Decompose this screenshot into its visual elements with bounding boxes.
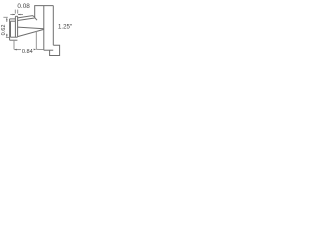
dim 0.62 top arrowhead [6,18,8,21]
background [0,0,76,63]
dim 0.62 bottom arrowhead [6,35,8,38]
dim 0.84 right arrowhead [34,49,37,51]
dim 0.62 line lower stub [6,34,8,37]
svg-text:1.25″: 1.25″ [58,23,73,30]
leg barb [35,18,37,21]
dim 0.08 right arrow line [18,14,23,16]
profile foot step [50,45,60,55]
arm bottom line [18,18,35,21]
profile top cap [35,6,54,18]
profile box bottom [44,49,53,51]
svg-text:0.84: 0.84 [22,49,33,55]
channel inner wall line [10,21,12,37]
dim 0.62 top extension tick [3,16,7,18]
dim 0.62 bottom extension tick [6,36,9,38]
arm top line [18,16,35,18]
dim 0.84 right extension line [35,31,37,49]
floor top face [18,27,44,29]
dim 0.08 left arrow line [10,14,15,16]
dim 0.84 line left stub [14,49,21,51]
profile right face [52,6,54,46]
channel outer wall [9,19,11,40]
channel top flange outer [10,18,16,20]
dim 0.84 line right stub [36,48,44,50]
riser top edge [15,15,17,17]
dim 0.08 left arrowhead [13,14,16,16]
dim 0.84 left extension line [13,41,15,50]
riser wall right line [17,16,19,37]
dim 0.84 left arrowhead [14,49,17,51]
dim 0.62 line upper stub [6,19,8,23]
dim 0.08 right extension line [17,10,19,14]
profile box left face [43,6,45,51]
channel bottom inner [11,36,18,38]
channel bottom outer [10,39,18,41]
floor bottom face diagonal [18,29,44,36]
svg-text:0.62: 0.62 [1,25,7,36]
dim 0.08 left extension line [14,10,16,14]
channel top flange inner [11,20,16,22]
riser wall left line [14,16,16,37]
dim 0.08 right arrowhead [18,14,21,16]
svg-text:0.08: 0.08 [17,3,30,10]
